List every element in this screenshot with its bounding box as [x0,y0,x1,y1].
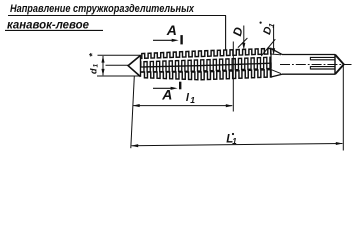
svg-text:Направление стружкоразделитель: Направление стружкоразделительных [10,3,195,15]
svg-text:d: d [88,68,98,74]
svg-text:1: 1 [93,64,100,68]
svg-text:1: 1 [190,95,195,105]
svg-text:A: A [166,22,177,38]
svg-text:канавок-левое: канавок-левое [7,17,89,31]
svg-text:1: 1 [232,137,237,146]
